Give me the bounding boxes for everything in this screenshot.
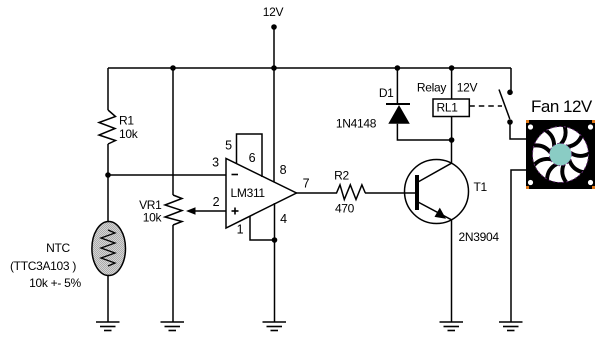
wire 12V rail down to pin 8: [273, 68, 275, 183]
junction rail/VR1: [170, 65, 176, 71]
svg-text:D1: D1: [379, 86, 394, 100]
transistor T1 base bar: [415, 175, 419, 210]
thermistor NTC body: [92, 222, 126, 276]
wire rail to VR1 top: [172, 68, 174, 195]
wire rail to D1 cathode: [396, 68, 398, 104]
wire top 12V rail: [108, 67, 511, 69]
minus input symbol: [232, 174, 239, 176]
svg-text:10k: 10k: [119, 127, 139, 141]
junction rail/12V supply: [271, 65, 277, 71]
wire 12V supply drop to top rail: [273, 27, 275, 68]
svg-text:2N3904: 2N3904: [459, 230, 500, 244]
wire rail to R1 top: [107, 68, 109, 110]
wire switch to fan plus: [510, 122, 526, 139]
svg-text:3: 3: [212, 156, 219, 170]
svg-text:1N4148: 1N4148: [336, 117, 377, 131]
op-amp U1 LM311 triangle: [226, 159, 297, 229]
wire R2 to transistor base: [365, 192, 415, 194]
svg-text:10k +- 5%: 10k +- 5%: [29, 276, 81, 290]
ground under NTC: [96, 322, 120, 331]
svg-text:6: 6: [249, 151, 256, 165]
resistor R1: [99, 110, 116, 144]
svg-text:4: 4: [280, 212, 287, 226]
pin 1 wire to pin 4 line: [250, 216, 275, 240]
node 12V supply terminal dot: [271, 24, 277, 30]
svg-text:7: 7: [303, 177, 310, 191]
transistor T1 circle: [405, 160, 469, 224]
junction D1/relay/collector: [449, 137, 455, 143]
node A junction R1/NTC/pin3: [105, 172, 111, 178]
wire node A to NTC top: [107, 175, 109, 222]
wire rail to relay coil top: [451, 68, 453, 99]
relay RL1 box: [433, 99, 469, 117]
wire pin 4 down to ground: [274, 203, 276, 322]
dashed link relay to switch: [469, 105, 502, 107]
wire VR1 bottom to ground: [172, 225, 174, 322]
svg-text:T1: T1: [474, 180, 488, 194]
svg-text:RL1: RL1: [437, 101, 459, 115]
wire fan minus to ground: [511, 170, 526, 322]
svg-text:LM311: LM311: [231, 186, 266, 200]
transistor T1 emitter arrow: [435, 208, 447, 219]
switch top terminal: [507, 90, 513, 96]
junction pin1/pin4: [272, 237, 278, 243]
transistor T1 emitter diagonal: [418, 202, 452, 220]
junction rail/relay coil: [449, 65, 455, 71]
svg-text:5: 5: [225, 139, 232, 153]
wire relay coil bottom to node: [451, 117, 453, 141]
svg-text:R2: R2: [334, 169, 349, 183]
svg-text:12V: 12V: [457, 81, 478, 95]
svg-text:NTC: NTC: [46, 241, 70, 255]
wire collector up to relay node: [451, 140, 453, 163]
transistor T1 collector diagonal: [418, 163, 452, 182]
switch blade: [499, 90, 510, 120]
svg-text:(TTC3A103 ): (TTC3A103 ): [10, 259, 76, 273]
junction rail/D1: [395, 65, 401, 71]
svg-text:2: 2: [213, 195, 220, 209]
wire R1 bottom to node A: [107, 144, 109, 175]
switch bottom terminal: [507, 119, 513, 125]
wiper arrow VR1: [186, 207, 226, 214]
wire rail right corner drop to switch: [510, 68, 512, 92]
svg-text:470: 470: [335, 202, 355, 216]
diode D1 triangle: [388, 105, 410, 124]
ground under fan: [499, 322, 523, 331]
svg-text:8: 8: [280, 163, 287, 177]
wire NTC bottom to ground: [107, 276, 109, 322]
svg-text:1: 1: [237, 223, 244, 237]
wire D1 anode to collector node: [397, 124, 451, 140]
svg-text:Fan 12V: Fan 12V: [531, 97, 593, 116]
wire op-amp output to R2: [296, 192, 335, 194]
ground under T1 emitter: [440, 322, 464, 331]
potentiometer VR1: [165, 195, 182, 225]
ground under VR1: [161, 322, 185, 331]
svg-text:12V: 12V: [263, 5, 284, 19]
svg-text:R1: R1: [119, 114, 134, 128]
balance pins 5-6 strap: [237, 134, 263, 177]
plus input symbol: [232, 208, 239, 215]
wire node A to op-amp pin 3: [108, 174, 226, 176]
svg-text:Relay: Relay: [417, 81, 446, 95]
svg-text:10k: 10k: [143, 211, 163, 225]
ground under op-amp: [263, 322, 287, 331]
fan bitmap: [526, 120, 595, 189]
diode D1 cathode bar: [386, 103, 410, 105]
wire emitter down to ground: [451, 220, 453, 322]
resistor R2: [335, 185, 365, 200]
